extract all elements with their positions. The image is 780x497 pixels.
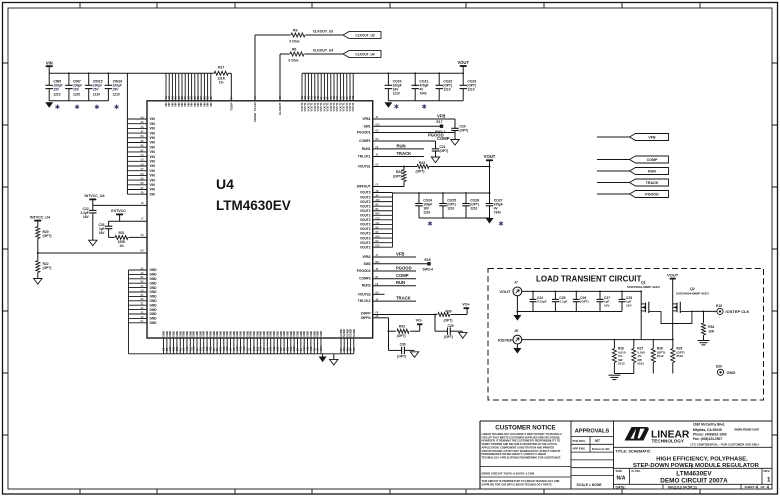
svg-text:1210: 1210	[393, 91, 400, 95]
capacitor CO22	[435, 73, 452, 101]
connector J8 IOSTEP	[498, 329, 673, 348]
svg-text:(OPT): (OPT)	[397, 354, 406, 358]
node VOUT (mid)	[484, 154, 496, 203]
svg-text:GND: GND	[150, 308, 158, 312]
svg-text:VOUT2: VOUT2	[360, 241, 371, 245]
capacitor CIN15	[85, 73, 103, 109]
node RUN flag	[597, 168, 669, 175]
svg-text:1%: 1%	[219, 80, 224, 84]
wire PGOOD1 net	[373, 132, 455, 137]
svg-text:VOUT: VOUT	[457, 60, 469, 65]
svg-text:(OPT): (OPT)	[393, 174, 402, 178]
svg-text:GND: GND	[150, 317, 158, 321]
wire COMP2 net	[373, 273, 416, 279]
wire RUN1 net	[373, 144, 424, 149]
capacitor C20	[451, 119, 468, 140]
svg-text:J7: J7	[514, 281, 518, 285]
load transient circuit box	[488, 269, 764, 401]
svg-text:TECHNOLOGY APPLICATIONS ENGINE: TECHNOLOGY APPLICATIONS ENGINEERING FOR …	[482, 455, 562, 459]
Linear Technology logo	[625, 427, 690, 444]
svg-text:R22: R22	[43, 262, 49, 266]
terminal E20 GND	[716, 364, 736, 375]
svg-text:CLKOUT_U4: CLKOUT_U4	[313, 49, 333, 53]
svg-text:TRLCK2: TRLCK2	[358, 299, 371, 303]
svg-text:10K: 10K	[708, 329, 715, 333]
svg-text:INTVCC_U4: INTVCC_U4	[30, 215, 50, 219]
resistor R30	[438, 310, 453, 323]
capacitor C24	[530, 291, 547, 312]
svg-text:R9: R9	[293, 28, 297, 32]
svg-text:VIN: VIN	[150, 155, 156, 159]
resistor R29	[671, 339, 685, 374]
capacitor C21	[432, 141, 448, 157]
capacitor CIN7	[65, 73, 83, 109]
svg-text:VOUT2: VOUT2	[360, 204, 371, 208]
svg-text:DEMO CIRCUIT 2007A: DEMO CIRCUIT 2007A	[660, 478, 728, 485]
svg-text:GND: GND	[319, 331, 323, 337]
svg-text:VIN: VIN	[150, 160, 156, 164]
svg-text:VIN: VIN	[150, 174, 156, 178]
svg-text:SW2: SW2	[364, 262, 371, 266]
svg-text:0 Ohm: 0 Ohm	[290, 40, 300, 44]
wire CLKOUT_U4 net	[278, 54, 343, 115]
svg-text:GND: GND	[150, 295, 158, 299]
ground R34	[698, 341, 710, 345]
wire IOSTEP CLK net	[691, 311, 717, 313]
svg-text:LTM4630EV: LTM4630EV	[216, 198, 291, 213]
capacitor C26	[573, 291, 589, 312]
svg-text:U4: U4	[216, 176, 234, 192]
svg-text:GND: GND	[150, 286, 158, 290]
svg-text:LOAD TRANSIENT CIRCUIT: LOAD TRANSIENT CIRCUIT	[536, 275, 641, 284]
capacitor C23	[98, 221, 112, 237]
ground R22	[34, 279, 42, 285]
svg-text:VFB1: VFB1	[362, 117, 370, 121]
U4 top VOUT1 pins	[300, 73, 355, 111]
svg-text:www.linear.com: www.linear.com	[733, 427, 759, 431]
svg-text:25V: 25V	[72, 87, 80, 91]
svg-text:VIN: VIN	[150, 188, 156, 192]
node EXTVCC	[111, 209, 126, 221]
wire DIFFN net	[373, 318, 420, 332]
wire VFB1 net	[373, 113, 455, 119]
svg-text:R21: R21	[118, 231, 124, 235]
svg-text:1630 McCarthy Blvd.: 1630 McCarthy Blvd.	[693, 423, 725, 427]
wire VOUTS1 net	[373, 166, 490, 168]
resistor R33	[397, 325, 409, 338]
svg-text:Fax: (408)434-0507: Fax: (408)434-0507	[693, 437, 722, 441]
svg-text:E17: E17	[437, 120, 443, 124]
svg-text:VIN: VIN	[150, 164, 156, 168]
svg-text:16V: 16V	[626, 304, 632, 308]
svg-text:GND: GND	[150, 281, 158, 285]
svg-text:0 Ohm: 0 Ohm	[289, 59, 299, 63]
svg-text:25V: 25V	[92, 87, 100, 91]
U4 left VIN pins	[127, 116, 155, 196]
svg-text:VIN: VIN	[150, 145, 156, 149]
svg-text:EXTVCC: EXTVCC	[111, 209, 126, 213]
svg-text:R6: R6	[292, 47, 296, 51]
capacitor CO26	[462, 193, 479, 218]
U4 right channel-1 pin labels	[357, 117, 381, 189]
wire VOUTS2 stub	[373, 293, 385, 295]
U4 top VIN pins	[164, 73, 213, 107]
node VOUT (top)	[457, 60, 469, 73]
wire VIN pin bus	[126, 73, 128, 194]
customer notice	[480, 424, 571, 486]
ground bottom bus	[319, 354, 327, 362]
svg-text:1210: 1210	[470, 207, 477, 211]
wire SW2 net	[373, 263, 428, 265]
resistor R21	[109, 231, 147, 248]
wire TRACK2 net	[373, 296, 416, 302]
node VIN	[46, 61, 53, 74]
svg-text:MODE_PLLIN: MODE_PLLIN	[253, 103, 257, 122]
IC U4 LTM4630EV	[147, 101, 373, 338]
svg-text:E19: E19	[716, 304, 722, 308]
svg-text:J8: J8	[514, 329, 518, 333]
wire DIFFP net	[373, 309, 467, 316]
svg-text:VOUT2: VOUT2	[360, 191, 371, 195]
svg-text:16V: 16V	[604, 304, 610, 308]
svg-text:R24: R24	[396, 170, 402, 174]
svg-text:0.1µF: 0.1µF	[559, 300, 567, 304]
node VO+	[462, 303, 470, 309]
svg-text:(OPT): (OPT)	[580, 300, 588, 304]
wire gate link	[649, 311, 692, 324]
wire SW1 net	[373, 125, 440, 127]
svg-text:VOUT2: VOUT2	[360, 195, 371, 199]
resistor R22	[36, 253, 52, 279]
svg-text:SUD50N04-8M8P-4GE3: SUD50N04-8M8P-4GE3	[627, 285, 660, 289]
U4 left GND pins	[129, 267, 158, 353]
svg-text:VFB: VFB	[437, 113, 445, 118]
svg-text:LTM4630EV: LTM4630EV	[676, 471, 712, 478]
svg-text:C11: C11	[376, 223, 381, 225]
svg-text:VOUT2: VOUT2	[360, 232, 371, 236]
wire CO24 bank rails	[393, 192, 490, 218]
svg-text:Q1: Q1	[641, 280, 646, 284]
ground C21	[431, 157, 439, 163]
svg-text:1210: 1210	[443, 87, 450, 91]
wire CO20 bank rails	[388, 72, 465, 100]
svg-text:7343: 7343	[494, 211, 501, 215]
svg-text:SW2-4: SW2-4	[423, 267, 433, 271]
svg-text:PGOOD1: PGOOD1	[357, 131, 371, 135]
ground C22	[89, 240, 97, 246]
svg-text:PGOOD: PGOOD	[396, 265, 412, 270]
transistor Q2	[673, 287, 709, 313]
svg-text:VOUT2: VOUT2	[360, 209, 371, 213]
node CLKOUT_U3 flag	[313, 30, 381, 39]
ground J7	[513, 315, 521, 321]
svg-text:C29: C29	[448, 324, 454, 328]
jumper E18 SW2-4	[423, 258, 433, 271]
svg-text:TRLCK1: TRLCK1	[358, 155, 371, 159]
ground load resistors	[608, 375, 620, 379]
svg-text:VFB: VFB	[396, 251, 404, 256]
svg-text:SHEET: SHEET	[745, 485, 755, 489]
svg-text:GND: GND	[150, 312, 158, 316]
svg-text:M8: M8	[353, 347, 356, 351]
svg-text:CLKOUT_U4: CLKOUT_U4	[355, 52, 374, 56]
svg-text:E18: E18	[425, 258, 431, 262]
size/ic-no row	[614, 468, 773, 484]
ground J8	[513, 348, 521, 354]
svg-text:SGND: SGND	[352, 329, 356, 337]
svg-text:+: +	[414, 84, 416, 88]
svg-text:+: +	[489, 202, 491, 206]
wire R17 to TEMP pin	[228, 73, 233, 111]
svg-text:VOUT2: VOUT2	[360, 236, 371, 240]
svg-text:16V: 16V	[99, 231, 106, 235]
svg-text:(OPT): (OPT)	[416, 169, 425, 173]
connector J7 VOUT	[499, 281, 641, 315]
resistor R28	[651, 339, 665, 374]
svg-text:(OPT): (OPT)	[440, 149, 449, 153]
svg-text:0.01µF: 0.01µF	[537, 300, 547, 304]
svg-text:GND: GND	[150, 303, 158, 307]
svg-text:CLKOUT_U3: CLKOUT_U3	[313, 30, 333, 34]
svg-text:HIGH EFFICIENCY, POLYPHASE,: HIGH EFFICIENCY, POLYPHASE,	[656, 457, 748, 463]
U4 right VOUT2 pins	[360, 190, 393, 250]
svg-text:M10: M10	[320, 346, 323, 351]
wire CIN bank rails	[49, 72, 109, 100]
wire VFB2 net	[373, 251, 416, 257]
svg-text:16V: 16V	[83, 215, 90, 219]
svg-text:VOUTS2: VOUTS2	[358, 292, 371, 296]
svg-text:(OPT): (OPT)	[43, 266, 52, 270]
svg-text:VIN: VIN	[150, 141, 156, 145]
svg-text:TECHNOLOGY: TECHNOLOGY	[652, 439, 684, 444]
svg-text:TRACK: TRACK	[397, 151, 412, 156]
resistor R23	[416, 161, 430, 173]
svg-text:DEMO CIRCUIT 2007A-A.2007A-1.C: DEMO CIRCUIT 2007A-A.2007A-1.CON	[482, 471, 535, 475]
node VOUT (load box)	[667, 273, 679, 292]
svg-text:1210: 1210	[423, 211, 430, 215]
svg-text:1210: 1210	[53, 92, 60, 96]
svg-text:RUN: RUN	[397, 144, 406, 149]
approvals	[571, 429, 614, 487]
svg-text:(OPT): (OPT)	[397, 334, 406, 338]
drawing title	[614, 447, 773, 469]
svg-text:TRACK: TRACK	[646, 181, 659, 185]
svg-text:TITLE: SCHEMATIC: TITLE: SCHEMATIC	[616, 450, 651, 454]
resistor R17	[214, 66, 228, 85]
svg-text:B10: B10	[376, 214, 381, 216]
node VO-	[416, 319, 423, 325]
svg-text:R20: R20	[43, 230, 49, 234]
resistor R24	[393, 167, 406, 187]
resistor R27	[632, 339, 645, 374]
svg-text:CLKOUT: CLKOUT	[278, 102, 282, 115]
wire Q1 Q2 drains/sources	[640, 291, 672, 340]
capacitor C28	[619, 291, 633, 312]
ground CO20 bank	[384, 102, 426, 109]
svg-text:COMP: COMP	[396, 273, 409, 278]
svg-text:VIN: VIN	[150, 131, 156, 135]
svg-text:VIN: VIN	[150, 169, 156, 173]
capacitor CIN5	[45, 73, 63, 109]
svg-text:SCALE = NONE: SCALE = NONE	[577, 483, 603, 487]
svg-text:VOUT2: VOUT2	[360, 214, 371, 218]
svg-text:E20: E20	[716, 364, 722, 368]
capacitor CO24	[415, 193, 432, 218]
svg-text:GND: GND	[150, 290, 158, 294]
svg-text:SIZE: SIZE	[616, 469, 623, 473]
svg-text:1210: 1210	[467, 87, 474, 91]
svg-text:A10: A10	[376, 199, 381, 202]
date row	[614, 484, 773, 489]
capacitor CO20	[385, 73, 402, 101]
svg-text:(OPT): (OPT)	[444, 318, 453, 322]
svg-text:GND: GND	[150, 299, 158, 303]
capacitor C25	[552, 291, 568, 312]
wire load cap gnd rail	[516, 311, 622, 313]
ground CO24 bank	[428, 218, 503, 226]
svg-text:VIN: VIN	[150, 127, 156, 131]
svg-text:VOUTS1: VOUTS1	[358, 165, 371, 169]
svg-text:(OPT): (OPT)	[444, 335, 453, 339]
svg-text:THIS CIRCUIT IS PROPRIETARY TO: THIS CIRCUIT IS PROPRIETARY TO LINEAR TE…	[482, 479, 560, 483]
node CLKOUT_U4 flag	[313, 49, 381, 58]
svg-text:1210: 1210	[447, 207, 454, 211]
svg-text:Q2: Q2	[690, 287, 695, 291]
svg-text:GND: GND	[727, 370, 736, 375]
svg-text:VIN: VIN	[150, 122, 156, 126]
resistor R6 0 Ohm	[289, 47, 305, 62]
terminal E19 IOSTEP CLK	[716, 304, 750, 315]
ground C29	[459, 333, 467, 339]
svg-text:1210: 1210	[73, 92, 80, 96]
ground bottom bus (signal)	[330, 354, 338, 365]
U4 right channel-2 pin labels	[357, 255, 380, 320]
node TRACK flag	[597, 179, 669, 186]
capacitor CIN16	[105, 73, 123, 109]
svg-text:COMP1: COMP1	[359, 139, 371, 143]
svg-text:VFB2: VFB2	[362, 255, 370, 259]
svg-text:R30: R30	[446, 310, 452, 314]
jumper E17 SW1-4	[435, 120, 445, 134]
node COMP flag	[597, 156, 669, 163]
capacitor CO27	[486, 193, 503, 218]
svg-text:COMP: COMP	[437, 136, 450, 141]
svg-text:GND: GND	[150, 277, 158, 281]
capacitor CO25	[439, 193, 456, 218]
node INTVCC_U4 (far left)	[30, 215, 50, 226]
svg-text:C30: C30	[400, 342, 406, 346]
svg-text:INTVCC_U4: INTVCC_U4	[85, 194, 105, 198]
svg-text:2512: 2512	[618, 362, 625, 366]
svg-text:1: 1	[767, 476, 771, 483]
svg-text:GND: GND	[150, 321, 158, 325]
svg-text:VIN: VIN	[150, 117, 156, 121]
svg-text:1210: 1210	[93, 92, 100, 96]
svg-text:M.Servin SK.: M.Servin SK.	[592, 447, 611, 451]
svg-text:R33: R33	[399, 325, 405, 329]
resistor R26	[612, 339, 625, 374]
svg-text:PGOOD2: PGOOD2	[357, 269, 371, 273]
svg-text:D10: D10	[376, 237, 381, 239]
U4 bottom GND pins	[129, 329, 356, 354]
svg-text:GND: GND	[150, 268, 158, 272]
svg-text:C10: C10	[376, 218, 381, 220]
resistor R9 0 Ohm	[290, 28, 306, 43]
ground CIN bank	[45, 102, 53, 108]
svg-text:VIN: VIN	[150, 178, 156, 182]
svg-text:RUN1: RUN1	[362, 147, 371, 151]
svg-text:VFB: VFB	[648, 135, 656, 139]
resistor R34	[702, 311, 715, 340]
capacitor C29	[435, 315, 463, 340]
capacitor CO21	[411, 73, 428, 101]
svg-text:SUD50N04-8M8P-4GE3: SUD50N04-8M8P-4GE3	[676, 292, 709, 296]
svg-text:VOUT2: VOUT2	[360, 223, 371, 227]
svg-text:CLKOUT_U3: CLKOUT_U3	[355, 33, 374, 37]
wire INTVCC net	[93, 203, 147, 206]
svg-text:VOUT: VOUT	[499, 289, 511, 294]
svg-text:DIFFOUT: DIFFOUT	[357, 185, 371, 189]
svg-text:(OPT): (OPT)	[460, 128, 469, 132]
svg-text:OF: OF	[761, 485, 765, 489]
wire VIN rail	[49, 72, 214, 74]
wire PHASMD net	[37, 250, 147, 254]
svg-text:TRACK: TRACK	[396, 296, 411, 301]
svg-text:RUN: RUN	[648, 169, 656, 173]
node VFB flag	[597, 134, 669, 141]
svg-text:R34: R34	[708, 325, 714, 329]
capacitor C27	[597, 291, 611, 312]
svg-text:DIFFN: DIFFN	[361, 316, 371, 320]
svg-text:VOUT: VOUT	[667, 273, 679, 278]
svg-text:IOSTEP: IOSTEP	[498, 337, 513, 342]
svg-text:VOUT2: VOUT2	[360, 245, 371, 249]
wire load resistor gnd rail	[614, 373, 633, 375]
svg-text:VIN: VIN	[150, 136, 156, 140]
capacitor CO23	[459, 73, 476, 101]
svg-text:LTC CONFIDENTIAL - FOR CUSTOME: LTC CONFIDENTIAL - FOR CUSTOMER USE ONLY	[691, 442, 760, 446]
svg-text:SUPPLIED FOR USE WITH LINEAR T: SUPPLIED FOR USE WITH LINEAR TECHNOLOGY …	[482, 482, 553, 486]
svg-text:2512: 2512	[637, 362, 644, 366]
svg-text:VIN: VIN	[209, 102, 213, 107]
svg-text:APP ENG.: APP ENG.	[573, 447, 587, 451]
svg-text:REV.: REV.	[764, 469, 771, 473]
svg-text:DATE:: DATE:	[616, 485, 626, 489]
svg-text:GND: GND	[150, 273, 158, 277]
transistor Q1	[627, 280, 660, 313]
svg-text:(OPT): (OPT)	[43, 234, 52, 238]
svg-text:VIN: VIN	[150, 150, 156, 154]
svg-text:VO+: VO+	[462, 303, 470, 307]
title block	[480, 421, 772, 489]
svg-text:SW1: SW1	[364, 124, 371, 128]
svg-text:APPROVALS: APPROVALS	[575, 429, 610, 435]
wire PGOOD2 net	[373, 265, 416, 271]
svg-text:COMP2: COMP2	[359, 277, 371, 281]
svg-text:RUN2: RUN2	[362, 284, 371, 288]
svg-text:IC NO.: IC NO.	[632, 469, 641, 473]
svg-text:M2: M2	[352, 95, 355, 99]
svg-text:R17: R17	[218, 66, 224, 70]
svg-text:VOUT: VOUT	[484, 154, 496, 159]
svg-text:VOUT2: VOUT2	[360, 227, 371, 231]
wire COMP1 net	[373, 136, 450, 141]
svg-text:PCB DES.: PCB DES.	[573, 439, 586, 443]
ground C30	[410, 352, 418, 358]
svg-text:RUN: RUN	[396, 280, 405, 285]
svg-text:VOUT2: VOUT2	[360, 200, 371, 204]
wire RUN2 net	[373, 280, 416, 286]
